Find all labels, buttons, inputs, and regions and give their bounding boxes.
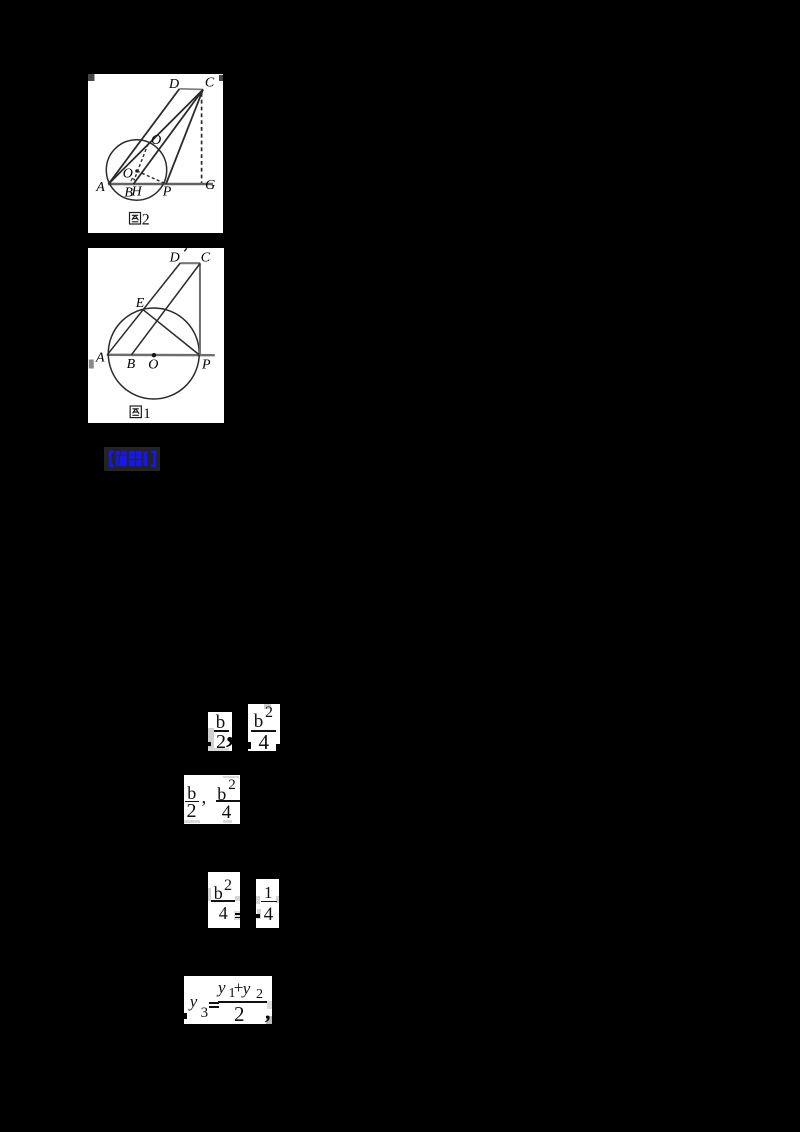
formula 2: b/2 , b^2/4 <box>184 775 240 824</box>
svg-text:C: C <box>205 76 215 91</box>
right angle mark at H <box>131 178 135 181</box>
wire D-C top segment <box>180 262 200 264</box>
wire C-A <box>109 90 204 184</box>
formula 4: y3=(y1+y2)/2 <box>184 976 272 1024</box>
selection handle top-right <box>219 75 223 81</box>
svg-text:B: B <box>127 357 136 372</box>
prime tick near D <box>184 248 187 251</box>
selection handle left-middle <box>89 360 94 369</box>
svg-text:2: 2 <box>142 211 150 228</box>
svg-text:P: P <box>201 358 211 373</box>
svg-text:H: H <box>130 185 142 200</box>
char block 3 tail <box>144 451 148 466</box>
svg-text:O: O <box>148 357 158 372</box>
formula 1b: fraction b^2/4 <box>248 704 280 751</box>
small equals sign at corner <box>234 911 240 920</box>
wire C-P <box>166 90 203 184</box>
svg-text:1: 1 <box>143 406 151 422</box>
svg-text:P: P <box>162 185 172 200</box>
svg-text:D: D <box>169 251 180 266</box>
wire D-C top segment <box>179 88 203 91</box>
svg-text:A: A <box>95 351 105 366</box>
formula 3a: b^2/4 <box>208 872 240 928</box>
char block 1 <box>116 451 128 466</box>
wire D-A <box>109 89 180 184</box>
svg-text:D: D <box>168 77 179 92</box>
formula 3b: 1/4 <box>256 879 279 928</box>
wire C-P vertical <box>199 263 201 355</box>
dashed wire C-G vertical <box>201 93 203 183</box>
wire A-G horizontal baseline <box>108 183 213 186</box>
wire A-P horizontal baseline <box>107 354 215 357</box>
node O center dot <box>135 169 139 173</box>
node O center dot <box>152 353 156 357</box>
svg-text:E: E <box>135 296 145 311</box>
svg-text:A: A <box>95 180 105 195</box>
caption 图1 glyph box <box>130 406 141 418</box>
figure box 2 (图2 diagram) <box>88 74 223 233</box>
wire C-B <box>134 90 204 184</box>
comma overlapping right edge <box>226 713 235 751</box>
wire E-P <box>143 310 199 355</box>
svg-text:C: C <box>201 250 211 265</box>
left bracket <box>109 451 114 468</box>
right bracket <box>151 451 156 468</box>
svg-text:G: G <box>205 178 215 193</box>
char block 2 <box>129 451 142 466</box>
formula 1a: fraction b/2 <box>208 712 232 751</box>
dashed wire O'-H <box>134 144 148 181</box>
wire B-C <box>131 264 200 355</box>
selection handle top-left <box>88 74 95 81</box>
circle O <box>108 308 199 399</box>
svg-text:O: O <box>123 166 133 181</box>
answer header dark box with blue text 【分析】 <box>104 447 160 471</box>
figure box 1 (图1 diagram) <box>88 248 224 423</box>
wire A-D <box>107 263 180 355</box>
svg-text:O: O <box>151 133 161 148</box>
dashed wire O-P <box>137 171 165 184</box>
circle O <box>106 140 166 200</box>
caption 图2 glyph box <box>130 213 141 225</box>
